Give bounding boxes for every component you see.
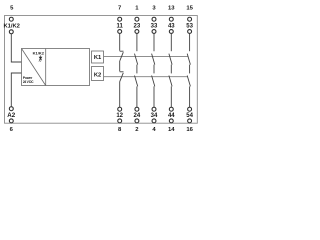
svg-text:14: 14 [168,127,175,133]
wire mid col4 [170,65,172,74]
svg-text:12: 12 [116,113,123,119]
svg-text:13: 13 [168,6,175,12]
wire 11 down [119,34,121,51]
svg-text:11: 11 [117,24,124,30]
wire K1/K2 to module [11,34,21,62]
terminal 8 [118,119,122,123]
contact K1 NC blade [120,52,124,61]
terminal 34 [152,107,156,111]
terminal A2 [9,107,13,111]
contact K2 NO blade col5 [187,76,190,87]
contact K2 NO blade col2 [135,76,138,87]
wire 53 down [189,34,191,52]
svg-text:24: 24 [134,113,141,119]
relay coil K2 box [92,67,104,81]
wire col4 down [170,86,172,107]
terminal K1/K2 [9,30,13,34]
terminal 12 [118,107,122,111]
terminal 5 [9,17,13,21]
svg-text:15: 15 [186,6,193,12]
contact K1 NO blade col4 [169,54,172,65]
wire module to A2 [11,73,21,107]
wire mid col1 [119,61,121,72]
svg-text:33: 33 [151,24,158,30]
contact K2 NC tick [120,71,124,73]
terminal 15 [188,17,192,21]
module diagonal [22,49,46,86]
relay coil K1 box [92,51,104,63]
svg-text:A2: A2 [7,112,15,119]
terminal 3 [152,17,156,21]
terminal 24 [135,107,139,111]
wire 33 down [153,34,155,52]
terminal 4 [152,119,156,123]
contact K1 NO blade col3 [152,54,155,65]
svg-text:34: 34 [151,113,158,119]
wire mid col2 [136,65,138,74]
contact K2 NO blade col4 [169,76,172,87]
svg-text:44: 44 [168,113,175,119]
module divider [45,49,47,86]
terminal 44 [169,107,173,111]
svg-text:K1: K1 [94,55,102,61]
svg-text:43: 43 [168,24,175,30]
contact K2 NC blade [120,73,124,82]
wire col1 down [119,81,121,107]
wire col3 down [153,86,155,107]
terminal 33 [152,30,156,34]
svg-text:53: 53 [186,24,193,30]
svg-text:16: 16 [186,127,193,133]
svg-text:24 V DC: 24 V DC [23,80,34,84]
module U1 box [22,49,90,86]
contact K1 NO blade col5 [187,54,190,65]
svg-text:23: 23 [134,24,141,30]
svg-text:K1/K2: K1/K2 [3,24,19,30]
LED D1 [39,55,42,61]
contact K2 NO blade col3 [152,76,155,87]
terminal 43 [169,30,173,34]
wire 23 down [136,34,138,52]
wire col5 down [189,86,191,107]
wire 43 down [170,34,172,52]
wire mid col3 [153,65,155,74]
svg-text:K1/K2: K1/K2 [33,50,45,55]
terminal 53 [188,30,192,34]
terminal 13 [169,17,173,21]
terminal 6 [9,119,13,123]
terminal 16 [188,119,192,123]
wire col2 down [136,86,138,107]
terminal 1 [135,17,139,21]
K1 linkage line [104,55,189,57]
svg-text:K2: K2 [94,72,101,78]
terminal 14 [169,119,173,123]
wire mid col5 [189,65,191,74]
terminal 23 [135,30,139,34]
contact K1 NO blade col2 [135,54,138,65]
svg-text:54: 54 [186,113,193,119]
contact K1 NC tick [120,50,124,52]
terminal 2 [135,119,139,123]
K2 linkage line [104,76,188,78]
terminal 7 [118,17,122,21]
terminal 11 [118,30,122,34]
terminal 54 [188,107,192,111]
